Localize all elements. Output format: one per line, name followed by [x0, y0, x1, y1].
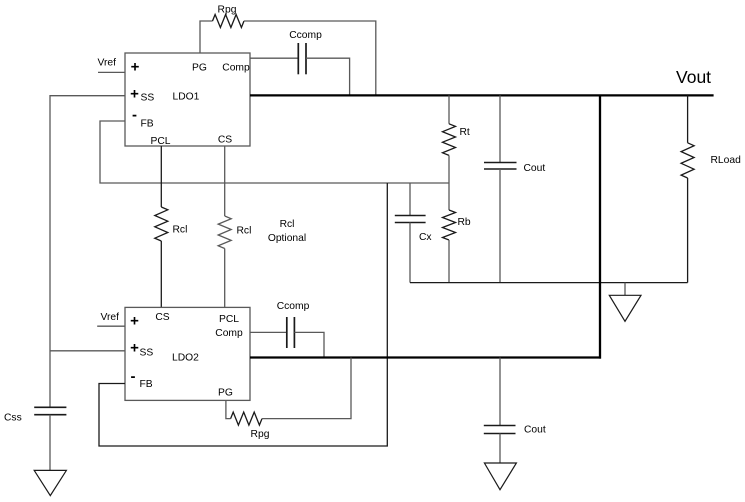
svg-text:Rcl: Rcl: [280, 219, 295, 230]
LDO1 box: [125, 53, 250, 146]
wire Cout (top) to ground line: [499, 169, 501, 283]
wire Vout rail (thick): [250, 94, 714, 96]
wire Rcl (left) down to LDO2 CS: [160, 241, 162, 307]
capacitor Cx: [395, 216, 433, 244]
wire FB2: LDO2 FB left, down, right, up to divider node: [99, 183, 387, 446]
LDO1 pin label CS: [218, 135, 232, 146]
svg-text:Cx: Cx: [419, 232, 432, 243]
svg-text:Vref: Vref: [98, 58, 117, 69]
svg-text:Optional: Optional: [268, 233, 306, 244]
label Rcl Optional: [268, 219, 306, 244]
ground (Cout bottom): [484, 463, 516, 490]
svg-text:-: -: [131, 368, 136, 385]
wire Cout (bottom) to ground: [499, 434, 501, 464]
LDO1 pin label PCL: [150, 136, 170, 147]
svg-text:Ccomp: Ccomp: [277, 301, 310, 312]
ground (output): [609, 295, 641, 321]
wire Comp2 to Ccomp: [250, 331, 287, 333]
wire Cx to ground line: [409, 223, 411, 283]
svg-text:+: +: [130, 313, 139, 330]
wire Ccomp to Vout rail: [306, 58, 350, 95]
capacitor Cout (top): [484, 163, 545, 175]
LDO2 pin label - FB: [131, 368, 153, 390]
svg-text:LDO1: LDO1: [173, 92, 200, 103]
svg-text:Css: Css: [4, 413, 22, 424]
ground (Css): [34, 470, 66, 495]
LDO2 pin label CS: [155, 312, 169, 323]
wire divider node to Cx: [409, 183, 411, 216]
LDO1 pin label PG: [192, 63, 207, 74]
svg-text:FB: FB: [141, 119, 154, 130]
svg-text:Rpg: Rpg: [251, 429, 270, 440]
svg-text:Comp: Comp: [222, 63, 250, 74]
wire ground line stem to ground symbol: [624, 283, 626, 296]
wire Rcl (right) down to LDO2 PCL: [224, 249, 226, 308]
wire PG1 up and leads to Rpg: [200, 21, 213, 53]
svg-text:Rpg: Rpg: [218, 5, 237, 16]
wire RLoad to ground line: [687, 178, 689, 283]
LDO2 pin label + (Vref input): [130, 313, 139, 330]
LDO2 pin label PCL: [219, 314, 239, 325]
LDO1 pin label + (Vref input): [131, 59, 140, 76]
wire CS1 down to Rcl (right): [224, 146, 226, 216]
svg-text:CS: CS: [218, 135, 232, 146]
LDO2 name label: [172, 353, 199, 364]
wire Vref to LDO2 + pin: [97, 325, 125, 327]
wire Comp1 to Ccomp: [250, 57, 298, 59]
svg-text:Vref: Vref: [101, 312, 120, 323]
wire Rpg2 up to LDO2 output line: [262, 358, 351, 419]
svg-text:FB: FB: [140, 379, 153, 390]
svg-text:+: +: [131, 59, 140, 76]
svg-text:+: +: [130, 340, 139, 357]
svg-text:PCL: PCL: [219, 314, 239, 325]
node Vout label: [676, 67, 711, 87]
svg-text:Cout: Cout: [524, 163, 546, 174]
svg-text:Rcl: Rcl: [237, 226, 252, 237]
wire Css to ground: [49, 415, 51, 471]
svg-text:Cout: Cout: [524, 425, 546, 436]
wire Ccomp2 to LDO2 output line: [294, 332, 324, 357]
svg-text:Rcl: Rcl: [173, 225, 188, 236]
svg-text:Vout: Vout: [676, 67, 711, 87]
resistor RLoad: [681, 143, 741, 178]
wire divider node to Rb: [448, 183, 450, 210]
svg-text:Rb: Rb: [458, 217, 471, 228]
wire Rb to ground line: [448, 240, 450, 283]
capacitor Css: [4, 407, 66, 423]
wire Vref to LDO1 + pin: [98, 71, 125, 73]
wire PG2 down and lead to Rpg: [226, 400, 231, 418]
resistor Rcl (left): [155, 207, 188, 241]
LDO2 pin label PG: [218, 388, 233, 399]
svg-text:PCL: PCL: [150, 136, 170, 147]
svg-text:PG: PG: [218, 388, 233, 399]
wire Vout vertical (thick): [599, 95, 601, 358]
LDO2 pin label + SS: [130, 340, 153, 359]
LDO1 pin label - FB: [132, 107, 154, 130]
wire SS net: LDO1 SS left, down to Css, branch to LDO2 SS: [50, 96, 125, 408]
wire ground line: [410, 282, 688, 284]
svg-text:+: +: [130, 86, 139, 103]
svg-text:Ccomp: Ccomp: [289, 30, 322, 41]
capacitor Cout (bottom): [484, 425, 546, 436]
wire PCL1 down to Rcl (left): [160, 146, 162, 207]
resistor Rt: [443, 124, 470, 156]
wire Rt to divider node: [448, 155, 450, 183]
wire LDO2 output to Cout (bottom): [499, 358, 501, 426]
LDO1 pin label Comp: [222, 63, 250, 74]
node Vref (LDO2): [101, 312, 120, 323]
svg-text:Comp: Comp: [215, 328, 243, 339]
LDO1 name label: [173, 92, 200, 103]
LDO2 box: [125, 307, 250, 400]
resistor Rpg (LDO2): [231, 412, 270, 440]
resistor Rpg (LDO1): [213, 5, 245, 28]
svg-text:Rt: Rt: [460, 127, 470, 138]
wire FB1: LDO1 FB left, down, right to Rt/Rb divider node: [100, 121, 449, 183]
svg-text:SS: SS: [141, 93, 155, 104]
svg-text:CS: CS: [155, 312, 169, 323]
capacitor Ccomp (LDO2): [277, 301, 310, 348]
wire Vout rail to Rt: [448, 95, 450, 123]
capacitor Ccomp (LDO1): [289, 30, 322, 74]
wire Vout rail to Cout (top): [499, 95, 501, 162]
svg-text:-: -: [132, 107, 137, 124]
LDO1 pin label + SS: [130, 86, 154, 104]
resistor Rcl (right): [218, 216, 251, 249]
resistor Rb: [443, 210, 471, 240]
svg-text:RLoad: RLoad: [711, 155, 742, 166]
LDO2 pin label Comp: [215, 328, 243, 339]
node Vref (LDO1): [98, 58, 117, 69]
svg-text:PG: PG: [192, 63, 207, 74]
wire LDO2 output line (thick): [250, 356, 601, 358]
wire Rpg to Vout rail: [244, 21, 376, 95]
svg-text:LDO2: LDO2: [172, 353, 199, 364]
svg-text:SS: SS: [140, 348, 154, 359]
wire Vout rail to RLoad: [687, 95, 689, 142]
